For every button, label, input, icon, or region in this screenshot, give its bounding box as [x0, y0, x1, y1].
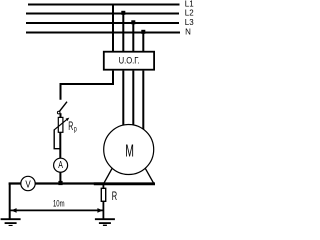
svg-text:L3: L3 [185, 18, 194, 27]
svg-text:L2: L2 [185, 8, 194, 17]
svg-text:R: R [112, 191, 117, 204]
svg-text:U.О.Г.: U.О.Г. [119, 55, 140, 66]
svg-text:M: M [125, 142, 134, 161]
svg-text:R: R [68, 120, 73, 133]
svg-text:L1: L1 [185, 0, 194, 8]
svg-text:10m: 10m [53, 198, 65, 209]
svg-text:V: V [25, 178, 30, 189]
svg-text:N: N [185, 27, 191, 36]
svg-text:p: p [74, 125, 77, 133]
svg-text:A: A [58, 159, 63, 171]
